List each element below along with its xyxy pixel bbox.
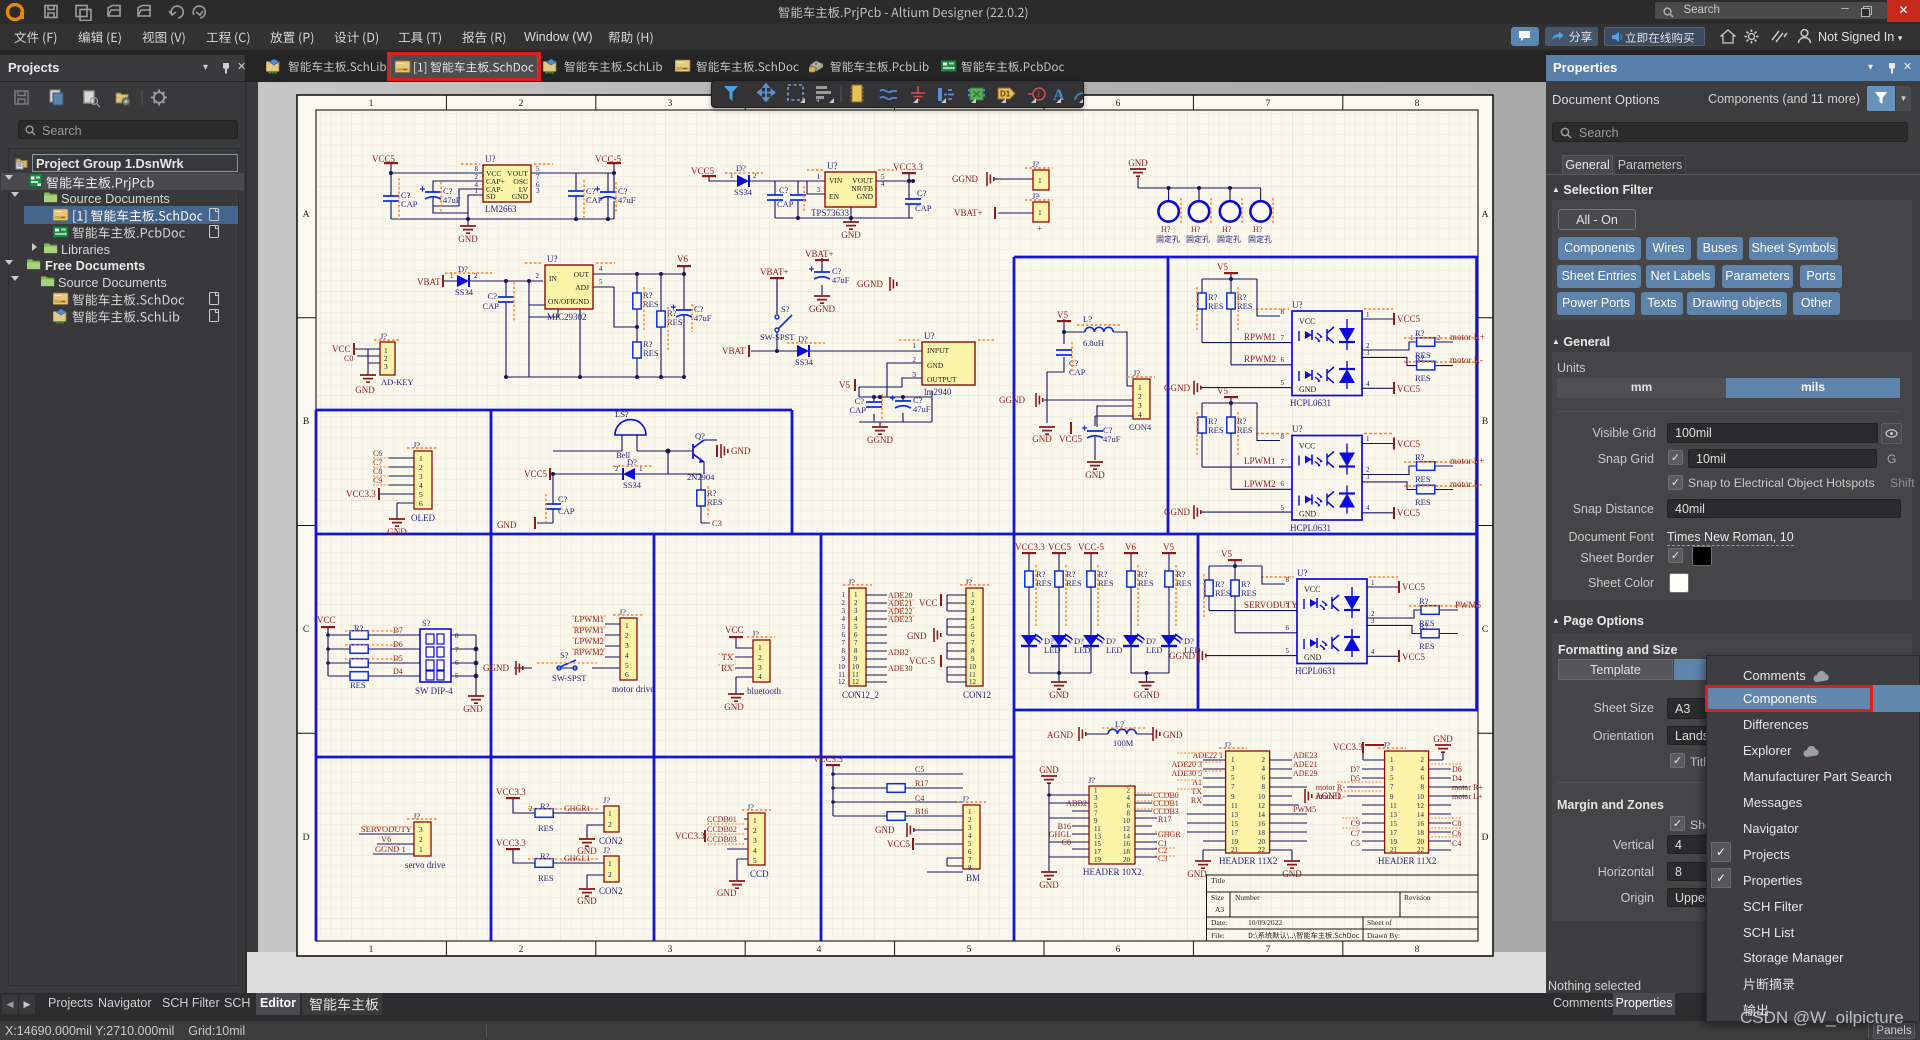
mounting hole H4 bbox=[1249, 198, 1273, 243]
svg-text:RES: RES bbox=[1237, 425, 1253, 435]
capacitor C? CAP con4 bbox=[1056, 342, 1086, 377]
svg-text:VCC: VCC bbox=[332, 344, 351, 354]
resistor R? RES pwm5b bbox=[1419, 621, 1439, 651]
svg-text:VCC5: VCC5 bbox=[691, 166, 715, 176]
wire blue verticals bbox=[316, 257, 1477, 941]
svg-text:4: 4 bbox=[1262, 765, 1266, 773]
svg-text:C?: C? bbox=[488, 291, 498, 301]
svg-text:3: 3 bbox=[817, 186, 821, 194]
wire J pins bbox=[998, 179, 1033, 213]
svg-text:C3: C3 bbox=[712, 518, 722, 528]
svg-text:L?: L? bbox=[1083, 314, 1092, 324]
svg-text:3: 3 bbox=[668, 99, 673, 109]
connector J? pin1 bbox=[1025, 191, 1053, 233]
svg-text:2: 2 bbox=[419, 463, 423, 472]
net label RPWM1 bbox=[1244, 332, 1276, 342]
svg-text:CAP: CAP bbox=[482, 301, 499, 311]
svg-text:2: 2 bbox=[753, 826, 757, 835]
svg-text:5: 5 bbox=[625, 661, 629, 670]
power port VCC5 pin4 bbox=[1394, 382, 1421, 394]
resistor R? RES mid bbox=[657, 307, 683, 350]
svg-text:9: 9 bbox=[854, 655, 858, 663]
svg-text:1: 1 bbox=[968, 808, 972, 816]
svg-text:2: 2 bbox=[971, 599, 975, 607]
svg-text:VCC: VCC bbox=[919, 598, 938, 608]
port VCC AD-KEY bbox=[332, 343, 354, 363]
svg-text:12: 12 bbox=[838, 678, 846, 686]
svg-text:1: 1 bbox=[608, 859, 612, 868]
svg-text:MIC29302: MIC29302 bbox=[547, 312, 587, 322]
inductor L? 6.8uH bbox=[1077, 314, 1122, 348]
power port V5 lm2940 bbox=[839, 379, 855, 391]
net label LPWM2 bbox=[1244, 479, 1276, 489]
svg-text:7: 7 bbox=[1266, 945, 1271, 955]
ground GND h11b top bbox=[1429, 734, 1454, 760]
svg-text:CAP: CAP bbox=[1069, 367, 1086, 377]
svg-text:CON12_2: CON12_2 bbox=[842, 690, 879, 700]
svg-text:47uF: 47uF bbox=[832, 275, 850, 285]
svg-text:CON4: CON4 bbox=[1129, 422, 1152, 432]
svg-text:LED: LED bbox=[1106, 645, 1123, 655]
svg-text:RES: RES bbox=[643, 348, 659, 358]
svg-text:D4: D4 bbox=[393, 667, 403, 676]
resistor R? RES led5 bbox=[1165, 565, 1192, 635]
svg-text:6: 6 bbox=[625, 670, 629, 679]
svg-text:VCC5: VCC5 bbox=[1397, 314, 1421, 324]
svg-text:motor R-: motor R- bbox=[1450, 355, 1483, 365]
svg-text:i: i bbox=[1038, 89, 1041, 99]
LED D? 1 bbox=[1021, 634, 1061, 673]
svg-text:VCC5: VCC5 bbox=[1048, 542, 1072, 552]
wire h11b stubs bbox=[1347, 753, 1467, 850]
svg-text:7: 7 bbox=[968, 856, 972, 864]
connector J? CON2 a bbox=[599, 795, 623, 846]
wire CON4 bbox=[1044, 319, 1133, 460]
ground GND h11a x2 bbox=[1187, 861, 1302, 879]
net labels ADE2x bbox=[888, 591, 915, 673]
svg-text:C9: C9 bbox=[373, 476, 382, 485]
ground GND led bbox=[1049, 682, 1069, 700]
canvas background bbox=[247, 82, 1546, 993]
svg-text:VCC5: VCC5 bbox=[1397, 384, 1421, 394]
PrjPcb row bbox=[1, 173, 244, 190]
svg-text:U?: U? bbox=[924, 331, 935, 341]
svg-text:D7: D7 bbox=[393, 626, 403, 635]
svg-text:RES: RES bbox=[1066, 578, 1082, 588]
wire ccd bbox=[727, 819, 748, 880]
net labels CCDB01-03 bbox=[707, 815, 744, 844]
LED D? 5 bbox=[1145, 634, 1201, 682]
svg-text:GND: GND bbox=[573, 297, 590, 306]
svg-text:RES: RES bbox=[1215, 588, 1231, 598]
power port VCC5 led bbox=[1048, 542, 1072, 571]
ground GND con2b bbox=[577, 875, 604, 906]
resistor R17 bm bbox=[831, 779, 963, 792]
svg-text:GND: GND bbox=[1433, 734, 1453, 744]
svg-text:19: 19 bbox=[1094, 856, 1102, 864]
port VBAT bbox=[417, 275, 443, 287]
svg-text:servo drive: servo drive bbox=[405, 860, 445, 870]
svg-text:CCD: CCD bbox=[750, 869, 769, 879]
svg-text:A: A bbox=[1482, 210, 1489, 220]
ground GND LM2663 bbox=[458, 217, 610, 244]
svg-text:6.8uH: 6.8uH bbox=[1083, 338, 1104, 348]
connector J? servo drive bbox=[405, 811, 445, 870]
svg-text:RES: RES bbox=[1415, 474, 1431, 484]
capacitor C? 47uF right bbox=[595, 182, 636, 214]
svg-text:2: 2 bbox=[842, 599, 846, 607]
svg-text:V5: V5 bbox=[1057, 310, 1068, 320]
svg-text:1: 1 bbox=[1366, 311, 1370, 319]
svg-text:GND: GND bbox=[1032, 434, 1052, 444]
tree area bbox=[8, 148, 239, 986]
svg-text:47uF: 47uF bbox=[694, 313, 712, 323]
svg-text:GND: GND bbox=[1163, 730, 1183, 740]
svg-text:OUTPUT: OUTPUT bbox=[927, 375, 957, 384]
svg-text:7: 7 bbox=[854, 639, 858, 647]
svg-text:4: 4 bbox=[753, 846, 757, 855]
tab 4 bbox=[675, 59, 692, 75]
svg-text:1: 1 bbox=[419, 454, 423, 463]
svg-text:A: A bbox=[303, 210, 310, 220]
svg-text:GGND: GGND bbox=[867, 435, 893, 445]
svg-text:PWM5: PWM5 bbox=[1455, 600, 1482, 610]
resistor R? RES dip row2 bbox=[345, 645, 420, 654]
svg-text:R17: R17 bbox=[915, 779, 928, 788]
svg-text:5: 5 bbox=[1281, 379, 1285, 387]
svg-text:RES: RES bbox=[1176, 578, 1192, 588]
svg-text:Date:: Date: bbox=[1211, 918, 1227, 927]
power port V5 bbox=[1209, 549, 1262, 580]
svg-text:RES: RES bbox=[350, 680, 366, 690]
svg-text:3: 3 bbox=[842, 607, 846, 615]
svg-text:U?: U? bbox=[547, 254, 558, 264]
svg-text:R?: R? bbox=[1419, 596, 1429, 606]
wire bt bbox=[735, 657, 753, 694]
power port VCC3.3 bbox=[893, 162, 923, 183]
svg-text:C4: C4 bbox=[1452, 839, 1461, 848]
svg-text:2: 2 bbox=[519, 99, 524, 109]
svg-text:4: 4 bbox=[968, 832, 972, 840]
svg-text:RX: RX bbox=[1191, 796, 1202, 805]
svg-text:U?: U? bbox=[485, 154, 496, 164]
svg-text:LPWM2: LPWM2 bbox=[574, 636, 604, 646]
svg-text:4: 4 bbox=[758, 672, 762, 681]
svg-text:SS34: SS34 bbox=[623, 480, 642, 490]
svg-text:3: 3 bbox=[753, 836, 757, 845]
net label LPWM1 bbox=[1244, 456, 1276, 466]
svg-text:8: 8 bbox=[455, 632, 459, 640]
port GND bell bbox=[717, 444, 751, 458]
port VCC3.3 h11b bbox=[1333, 742, 1384, 753]
port VBAT lm2940 bbox=[722, 345, 779, 357]
svg-text:C7: C7 bbox=[1351, 829, 1360, 838]
svg-text:motor L+: motor L+ bbox=[1452, 792, 1483, 801]
net label GGND 1 servo bbox=[373, 844, 414, 854]
capacitor C? CAP bbox=[905, 179, 932, 213]
svg-text:3: 3 bbox=[1094, 794, 1098, 802]
svg-text:GND: GND bbox=[907, 631, 927, 641]
svg-text:2: 2 bbox=[608, 820, 612, 829]
svg-text:20: 20 bbox=[1417, 838, 1425, 846]
connector J? HEADER 10X2 bbox=[1083, 775, 1142, 877]
svg-text:ON/OFF: ON/OFF bbox=[548, 297, 575, 306]
svg-text:VCC5: VCC5 bbox=[1402, 652, 1426, 662]
svg-text:16: 16 bbox=[1258, 820, 1266, 828]
svg-text:5: 5 bbox=[854, 623, 858, 631]
svg-text:21: 21 bbox=[1390, 846, 1398, 854]
svg-text:motor R+: motor R+ bbox=[1452, 783, 1483, 792]
svg-text:PWM5: PWM5 bbox=[1293, 805, 1316, 814]
switch S? SW DIP-4 bbox=[415, 618, 459, 696]
svg-text:GGND: GGND bbox=[857, 279, 883, 289]
capacitor C4 bm bbox=[831, 794, 963, 804]
resistor R? RES dip row3 bbox=[345, 659, 420, 668]
svg-text:R?: R? bbox=[1415, 328, 1425, 338]
svg-text:5: 5 bbox=[971, 623, 975, 631]
svg-text:RPWM1: RPWM1 bbox=[1244, 332, 1276, 342]
resistor R? RES led4 bbox=[1127, 565, 1154, 635]
Source Documents 2 bbox=[11, 276, 19, 281]
svg-text:4: 4 bbox=[1421, 765, 1425, 773]
svg-text:1: 1 bbox=[817, 173, 821, 181]
svg-text:VBAT+: VBAT+ bbox=[954, 208, 983, 218]
wire con12_2 pins bbox=[866, 595, 887, 682]
svg-text:Revision: Revision bbox=[1404, 893, 1431, 902]
svg-text:R?: R? bbox=[1415, 452, 1425, 462]
svg-text:CON12: CON12 bbox=[963, 690, 991, 700]
svg-text:GND: GND bbox=[355, 385, 375, 395]
svg-text:8: 8 bbox=[475, 165, 479, 173]
svg-text:3: 3 bbox=[971, 607, 975, 615]
svg-text:4: 4 bbox=[971, 615, 975, 623]
svg-text:ADE23: ADE23 bbox=[1293, 751, 1317, 760]
power port VCC5 TPS bbox=[691, 166, 717, 181]
svg-text:R17: R17 bbox=[1158, 815, 1171, 824]
connector J? bluetooth bbox=[747, 629, 781, 696]
svg-text:21: 21 bbox=[1231, 846, 1239, 854]
svg-text:3: 3 bbox=[419, 472, 423, 481]
svg-text:RES: RES bbox=[1138, 578, 1154, 588]
svg-text:VCC3.3: VCC3.3 bbox=[346, 489, 376, 499]
power port V5 led bbox=[1162, 542, 1176, 571]
svg-text:47uF: 47uF bbox=[913, 404, 931, 414]
resistor R? RES motor R- bbox=[1404, 353, 1477, 383]
svg-text:GGND: GGND bbox=[1164, 383, 1190, 393]
svg-text:12: 12 bbox=[1417, 802, 1425, 810]
svg-text:RPWM2: RPWM2 bbox=[574, 647, 604, 657]
svg-text:ADB2: ADB2 bbox=[888, 648, 909, 657]
svg-text:9: 9 bbox=[1390, 793, 1394, 801]
svg-text:6: 6 bbox=[968, 848, 972, 856]
svg-text:1: 1 bbox=[625, 621, 629, 630]
port VCC5 bm bbox=[887, 838, 963, 850]
svg-text:1: 1 bbox=[753, 816, 757, 825]
svg-text:4: 4 bbox=[842, 615, 846, 623]
svg-text:14: 14 bbox=[1258, 811, 1266, 819]
svg-text:S?: S? bbox=[560, 650, 569, 660]
svg-text:1: 1 bbox=[475, 187, 479, 195]
net labels h11b left bbox=[1316, 765, 1382, 848]
power port VCC-5 led bbox=[1078, 542, 1105, 571]
svg-text:+: + bbox=[1037, 223, 1042, 233]
net label RPWM2 bbox=[1244, 354, 1276, 364]
svg-text:D6: D6 bbox=[1452, 765, 1462, 774]
svg-text:CCDB03: CCDB03 bbox=[707, 835, 737, 844]
wire AD-KEY bbox=[354, 349, 380, 375]
svg-text:17: 17 bbox=[1390, 829, 1398, 837]
ground GGND vbat cap bbox=[809, 296, 835, 314]
svg-text:5: 5 bbox=[1390, 774, 1394, 782]
svg-text:ADE21: ADE21 bbox=[1293, 760, 1317, 769]
resistor R? RES pwm5 bbox=[1409, 596, 1478, 628]
svg-text:C6: C6 bbox=[373, 449, 382, 458]
svg-text:2: 2 bbox=[625, 631, 629, 640]
net labels h11b right bbox=[1431, 764, 1483, 848]
svg-text:3: 3 bbox=[968, 824, 972, 832]
svg-text:C: C bbox=[1482, 625, 1488, 635]
svg-text:9: 9 bbox=[1094, 817, 1098, 825]
svg-text:GND: GND bbox=[577, 896, 597, 906]
ruler ticks and numbers bbox=[297, 95, 1493, 956]
svg-text:GND: GND bbox=[1282, 869, 1302, 879]
SchDoc / SchLib free bbox=[53, 292, 70, 307]
net label motor L- bbox=[1450, 479, 1482, 489]
capacitor C? CAP bbox=[383, 178, 418, 220]
svg-text:5: 5 bbox=[419, 490, 423, 499]
net label GHGR1 bbox=[564, 804, 591, 813]
svg-text:SS34: SS34 bbox=[795, 357, 814, 367]
svg-text:IN: IN bbox=[549, 274, 557, 283]
svg-text:D5: D5 bbox=[393, 654, 403, 663]
svg-text:RES: RES bbox=[1419, 641, 1435, 651]
svg-text:5: 5 bbox=[1231, 774, 1235, 782]
net label C6 C7 C8 C9 bbox=[373, 449, 389, 485]
svg-text:D4: D4 bbox=[1452, 774, 1462, 783]
svg-text:6: 6 bbox=[842, 631, 846, 639]
ground GGND hcpl3 bbox=[1169, 649, 1206, 663]
svg-text:C?: C? bbox=[779, 185, 789, 195]
svg-text:VCC3.3: VCC3.3 bbox=[1333, 742, 1363, 752]
wire dip right bbox=[451, 635, 478, 696]
svg-text:3: 3 bbox=[384, 362, 388, 371]
svg-text:SERVODUTY: SERVODUTY bbox=[1244, 600, 1298, 610]
svg-text:Size: Size bbox=[1211, 893, 1225, 902]
svg-text:2: 2 bbox=[536, 272, 540, 280]
svg-text:1: 1 bbox=[971, 591, 975, 599]
svg-text:V6: V6 bbox=[381, 834, 391, 844]
svg-text:3: 3 bbox=[1231, 765, 1235, 773]
svg-text:VCC5: VCC5 bbox=[524, 469, 548, 479]
svg-text:7: 7 bbox=[1281, 458, 1285, 466]
svg-text:GGND: GGND bbox=[952, 174, 978, 184]
svg-text:Q?: Q? bbox=[695, 431, 705, 441]
svg-text:2: 2 bbox=[1421, 756, 1425, 764]
svg-text:RES: RES bbox=[1415, 497, 1431, 507]
svg-text:5: 5 bbox=[968, 840, 972, 848]
port VBAT+ J pin bbox=[954, 207, 995, 219]
svg-text:RES: RES bbox=[643, 299, 659, 309]
capacitor C? 47uF con4 bbox=[1082, 425, 1121, 444]
toolbar bbox=[14, 88, 234, 108]
svg-text:RPWM2: RPWM2 bbox=[1244, 354, 1276, 364]
wire OLED bbox=[379, 458, 414, 519]
svg-text:GND: GND bbox=[497, 520, 517, 530]
svg-text:6: 6 bbox=[419, 499, 423, 508]
svg-text:GHGR: GHGR bbox=[1158, 830, 1181, 839]
svg-text:motor drive: motor drive bbox=[612, 684, 654, 694]
svg-text:CAP: CAP bbox=[401, 199, 418, 209]
svg-text:B: B bbox=[1482, 417, 1488, 427]
svg-text:GND: GND bbox=[875, 825, 895, 835]
resistor R? RES bbox=[1197, 412, 1224, 456]
ground GGND hcpl1 bbox=[1164, 381, 1201, 395]
wire blue box row C right bottom bbox=[1014, 709, 1478, 712]
resistor R? RES low bbox=[633, 325, 659, 358]
power port VCC5 con4 bbox=[1059, 422, 1083, 444]
ground GND ccd bbox=[717, 881, 745, 898]
ground GND con2a bbox=[577, 825, 604, 856]
svg-text:CCDB02: CCDB02 bbox=[707, 825, 737, 834]
svg-text:V5: V5 bbox=[1221, 549, 1232, 559]
right side quick buttons bbox=[1511, 27, 1539, 46]
svg-text:4: 4 bbox=[854, 615, 858, 623]
power port VCC5 pin4 bbox=[1394, 507, 1421, 519]
svg-text:GND: GND bbox=[927, 361, 944, 370]
svg-text:9: 9 bbox=[1231, 793, 1235, 801]
ground GND bt bbox=[724, 694, 744, 712]
ground GGND lm2940 bbox=[867, 395, 905, 445]
resistor R? RES motor L- bbox=[1404, 485, 1477, 507]
wire blue box row C top bbox=[316, 533, 1478, 536]
svg-text:19: 19 bbox=[1231, 838, 1239, 846]
svg-text:LED: LED bbox=[1146, 645, 1163, 655]
svg-text:HCPL0631: HCPL0631 bbox=[1290, 523, 1331, 533]
svg-text:8: 8 bbox=[1281, 433, 1285, 441]
svg-text:VCC: VCC bbox=[317, 615, 336, 625]
svg-text:C?: C? bbox=[917, 188, 927, 198]
svg-text:GND: GND bbox=[841, 230, 861, 240]
svg-text:B: B bbox=[303, 417, 309, 427]
svg-text:OLED: OLED bbox=[411, 513, 435, 523]
search bbox=[18, 120, 238, 139]
connector J? motor drive bbox=[612, 607, 654, 694]
net label motor R+ bbox=[1450, 332, 1485, 342]
svg-text:GND: GND bbox=[731, 446, 751, 456]
svg-text:VCC-5: VCC-5 bbox=[909, 656, 936, 666]
svg-text:47uF: 47uF bbox=[443, 195, 461, 205]
svg-text:HEADER 11X2: HEADER 11X2 bbox=[1378, 856, 1436, 866]
IC U? TPS73633 bbox=[807, 161, 897, 218]
svg-text:U?: U? bbox=[1297, 568, 1308, 578]
svg-text:6: 6 bbox=[1262, 774, 1266, 782]
svg-text:D6: D6 bbox=[393, 640, 403, 649]
svg-text:2: 2 bbox=[608, 870, 612, 879]
ground GND con4 cap bbox=[1085, 462, 1105, 480]
svg-text:2: 2 bbox=[419, 835, 423, 844]
svg-text:R?: R? bbox=[1419, 621, 1429, 631]
svg-text:GND: GND bbox=[1187, 869, 1207, 879]
ground AGND h11a bbox=[1305, 789, 1341, 803]
svg-text:1: 1 bbox=[854, 591, 858, 599]
svg-text:13: 13 bbox=[1231, 811, 1239, 819]
port VCC bt bbox=[725, 625, 753, 648]
svg-text:GND: GND bbox=[717, 888, 737, 898]
capacitor C? CAP bell bbox=[545, 494, 575, 522]
IC U? HCPL0631 bbox=[1256, 300, 1393, 408]
svg-text:4: 4 bbox=[625, 651, 629, 660]
svg-text:GND: GND bbox=[1128, 158, 1148, 168]
